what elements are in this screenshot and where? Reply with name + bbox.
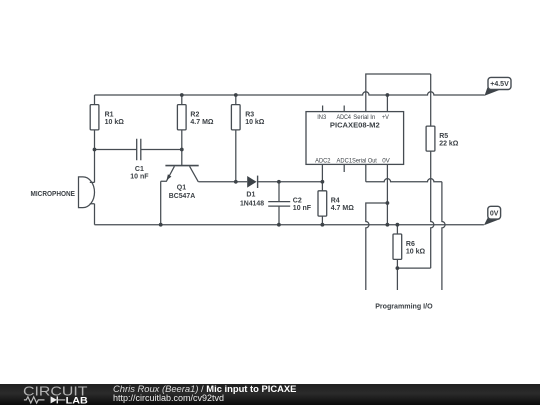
junction R3 top on +V rail bbox=[234, 93, 238, 97]
svg-text:10 kΩ: 10 kΩ bbox=[105, 119, 125, 126]
svg-text:0V: 0V bbox=[382, 158, 390, 165]
svg-text:MICROPHONE: MICROPHONE bbox=[31, 189, 76, 198]
svg-text:10 kΩ: 10 kΩ bbox=[245, 119, 265, 126]
junction R4 bottom on ground rail bbox=[321, 223, 325, 227]
wire C2 top stub bbox=[278, 182, 280, 202]
junction C1 / R2 bottom / Q1 base bbox=[180, 148, 184, 152]
wire C1 to base node bbox=[141, 149, 182, 151]
flag +4.5V bbox=[485, 77, 512, 95]
pin stub IN3 bbox=[322, 106, 324, 112]
svg-text:10 nF: 10 nF bbox=[293, 205, 312, 212]
junction R3 bottom on collector wire bbox=[234, 180, 238, 184]
wire R2 top stub bbox=[181, 95, 183, 105]
wire Serial In pin up bbox=[366, 74, 431, 112]
wire microphone bottom to ground bbox=[94, 204, 96, 225]
wire Serial Out horizontal with hops bbox=[366, 179, 442, 182]
junction C2 top bbox=[277, 180, 281, 184]
resistor R5 bbox=[426, 126, 459, 151]
junction 0V pin on ground rail bbox=[386, 223, 390, 227]
credit line 1 bbox=[113, 384, 296, 393]
junction programming 0V tap bbox=[386, 201, 390, 205]
junction R6 top on ground rail bbox=[396, 223, 400, 227]
svg-text:10 nF: 10 nF bbox=[130, 174, 149, 181]
wire node to microphone top bbox=[94, 150, 96, 183]
svg-text:ADC2: ADC2 bbox=[315, 158, 331, 165]
wire 0V pin down to ground bbox=[386, 164, 388, 224]
wire R1 bottom to node bbox=[94, 130, 96, 150]
svg-text:R1: R1 bbox=[105, 111, 114, 118]
svg-text:0V: 0V bbox=[490, 211, 499, 218]
resistor R6 bbox=[393, 234, 426, 259]
wire R6 bottom stub bbox=[396, 259, 398, 268]
wire C2 bottom stub bbox=[278, 206, 280, 225]
footer bar bbox=[0, 384, 540, 405]
svg-text:4.7 MΩ: 4.7 MΩ bbox=[331, 205, 355, 212]
junction C2 bottom on ground rail bbox=[277, 223, 281, 227]
resistor R2 bbox=[177, 105, 214, 130]
wire R1 top stub bbox=[94, 95, 96, 105]
junction R4 top / ADC2 bbox=[321, 180, 325, 184]
wire ADC2 pin down bbox=[321, 164, 323, 181]
svg-text:Programming I/O: Programming I/O bbox=[375, 302, 433, 311]
transistor Q1 bbox=[161, 166, 199, 201]
wire top +V rail y=95 with hops bbox=[95, 92, 485, 95]
resistor R1 bbox=[90, 105, 124, 130]
svg-text:BC547A: BC547A bbox=[169, 191, 195, 200]
wire R4 top stub bbox=[321, 182, 323, 191]
svg-text:Serial Out: Serial Out bbox=[352, 158, 377, 165]
svg-text:C2: C2 bbox=[293, 198, 302, 205]
op-amp U1 PICAXE08-M2 IC bbox=[306, 112, 404, 165]
wire R3 bottom to collector wire bbox=[235, 130, 237, 182]
wire R3 top stub bbox=[235, 95, 237, 105]
microphone MIC bbox=[31, 177, 95, 208]
junction Q1 emitter on ground rail bbox=[159, 223, 163, 227]
resistor R3 bbox=[231, 105, 264, 130]
credit line 2 bbox=[113, 394, 224, 403]
wire Serial Out down programming bbox=[442, 182, 445, 290]
junction R6 bottom / R5 branch bbox=[396, 266, 400, 270]
svg-text:+V: +V bbox=[382, 114, 390, 121]
wire base node to Q1 base bbox=[181, 150, 183, 166]
svg-text:R4: R4 bbox=[331, 198, 340, 205]
wire R6 node down programming bbox=[396, 268, 398, 290]
svg-text:22 kΩ: 22 kΩ bbox=[439, 141, 459, 148]
wire R4 bottom stub bbox=[321, 216, 323, 225]
svg-text:10 kΩ: 10 kΩ bbox=[406, 248, 426, 255]
pin stub ADC4 bbox=[343, 106, 345, 112]
wire Q1 collector to D1 bbox=[198, 181, 247, 183]
junction R1 bottom / C1 / microphone bbox=[93, 148, 97, 152]
capacitor C2 bbox=[268, 198, 312, 212]
junction +V pin on +V rail bbox=[386, 93, 390, 97]
wire R5 vertical upper bbox=[430, 74, 432, 126]
wire C1 row left (R1 bottom node to C1) bbox=[95, 149, 137, 151]
svg-text:IN3: IN3 bbox=[317, 114, 326, 121]
svg-text:R5: R5 bbox=[439, 133, 448, 140]
svg-text:R2: R2 bbox=[190, 111, 199, 118]
wire R6 node to R5 branch bbox=[397, 267, 430, 269]
svg-text:PICAXE08-M2: PICAXE08-M2 bbox=[330, 120, 380, 129]
wire ground rail y=224.7 with hops bbox=[95, 224, 484, 226]
wire programming 0V tap bbox=[366, 203, 388, 290]
wire D1 cathode to ADC2 node bbox=[258, 181, 323, 183]
wire +V pin up bbox=[386, 95, 388, 112]
capacitor C1 bbox=[130, 139, 149, 181]
svg-text:ADC1: ADC1 bbox=[337, 158, 353, 165]
flag 0V bbox=[484, 206, 501, 225]
svg-text:1N4148: 1N4148 bbox=[240, 198, 264, 207]
CircuitLab logo bbox=[22, 385, 92, 405]
diode D1 bbox=[240, 176, 264, 208]
wire R2 bottom to base node bbox=[181, 130, 183, 150]
svg-text:R3: R3 bbox=[245, 111, 254, 118]
svg-text:+4.5V: +4.5V bbox=[490, 81, 509, 88]
svg-text:4.7 MΩ: 4.7 MΩ bbox=[190, 119, 214, 126]
pin stub ADC1 bbox=[343, 164, 345, 172]
resistor R4 bbox=[318, 191, 354, 216]
svg-text:C1: C1 bbox=[135, 166, 144, 173]
wire R6 top stub bbox=[396, 225, 398, 234]
wire Q1 emitter to ground bbox=[160, 181, 162, 224]
wire Serial Out pin down bbox=[365, 164, 367, 181]
junction R2 top on +V rail bbox=[180, 93, 184, 97]
svg-text:R6: R6 bbox=[406, 241, 415, 248]
wire R5 vertical lower to R6 bottom node row bbox=[431, 151, 434, 268]
svg-text:LAB: LAB bbox=[66, 395, 88, 405]
